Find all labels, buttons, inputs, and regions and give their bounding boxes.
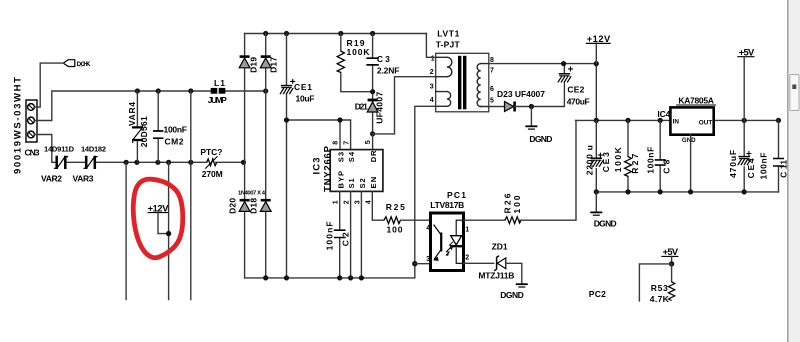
svg-text:VAR4: VAR4 bbox=[127, 102, 137, 126]
capacitor CE2 470uF bbox=[558, 64, 590, 107]
svg-text:+12V: +12V bbox=[148, 203, 170, 213]
diode D23 UF4007 bbox=[489, 89, 545, 112]
svg-text:4.7K: 4.7K bbox=[650, 294, 670, 304]
svg-text:100: 100 bbox=[387, 225, 403, 235]
svg-text:2: 2 bbox=[344, 200, 351, 204]
svg-text:PTC?: PTC? bbox=[200, 147, 222, 157]
capacitor CE3 2200u bbox=[585, 120, 611, 191]
capacitor CM2 100nF bbox=[153, 91, 187, 162]
svg-text:VAR2: VAR2 bbox=[41, 173, 62, 183]
svg-text:DGND: DGND bbox=[500, 290, 524, 300]
secondary ground rail bbox=[596, 191, 778, 193]
svg-text:1: 1 bbox=[465, 226, 469, 233]
svg-text:100nF: 100nF bbox=[645, 147, 655, 174]
svg-text:PC1: PC1 bbox=[447, 190, 466, 200]
svg-text:L1: L1 bbox=[214, 78, 225, 88]
svg-text:4: 4 bbox=[365, 200, 372, 204]
svg-text:R26: R26 bbox=[503, 193, 513, 213]
svg-text:7: 7 bbox=[490, 67, 494, 74]
wire transformer pin4 to primary return bbox=[415, 106, 436, 263]
svg-text:2200 u: 2200 u bbox=[585, 145, 595, 175]
ground DGND at D23 bbox=[525, 107, 552, 144]
svg-text:KA7805A: KA7805A bbox=[678, 95, 714, 105]
wire to PC1 pin3 bbox=[415, 263, 430, 265]
capacitor C11 100nF bbox=[758, 120, 788, 191]
svg-text:100nF: 100nF bbox=[758, 153, 768, 180]
thermistor PTC 270M bbox=[200, 147, 222, 179]
wire IC3 pin2 bbox=[350, 191, 352, 278]
svg-text:1: 1 bbox=[431, 55, 435, 62]
resistor R25 100 bbox=[384, 202, 430, 234]
svg-text:D23 UF4007: D23 UF4007 bbox=[497, 89, 545, 99]
capacitor CE4 470uF bbox=[728, 120, 756, 191]
capacitor CE1 10uF electrolytic bbox=[280, 34, 315, 278]
svg-text:R27: R27 bbox=[630, 153, 640, 173]
svg-text:4: 4 bbox=[426, 225, 430, 232]
svg-text:3: 3 bbox=[426, 256, 430, 263]
connector CN3 bbox=[25, 100, 40, 158]
secondary +12V wire from pin8 bbox=[489, 64, 597, 121]
wire PC1 pin2 to ZD1 bbox=[464, 262, 494, 264]
regulator IC4 KA7805A bbox=[657, 95, 716, 144]
IC U1: IC3 TNY266P box bbox=[312, 145, 383, 192]
svg-text:S2: S2 bbox=[358, 178, 367, 188]
svg-text:270M: 270M bbox=[202, 169, 223, 179]
svg-text:DGND: DGND bbox=[594, 218, 617, 228]
red annotation circle bbox=[133, 179, 183, 258]
svg-text:D17: D17 bbox=[269, 57, 279, 73]
svg-text:OUT: OUT bbox=[699, 120, 713, 127]
svg-text:S4: S4 bbox=[347, 151, 356, 162]
svg-text:LVT1: LVT1 bbox=[437, 29, 459, 39]
svg-text:R53: R53 bbox=[651, 283, 668, 293]
svg-text:10uF: 10uF bbox=[296, 94, 315, 104]
power label +12V bbox=[586, 34, 611, 64]
svg-text:5: 5 bbox=[365, 140, 372, 144]
capacitor C2 100nF on BYP pin bbox=[325, 191, 351, 278]
capacitor C3 2.2NF bbox=[366, 34, 399, 92]
resistor R27 100K bbox=[613, 120, 640, 191]
wire EN pin to R25 bbox=[372, 191, 384, 220]
diode D19 bbox=[239, 57, 258, 73]
svg-text:100K: 100K bbox=[347, 47, 371, 57]
svg-text:8: 8 bbox=[332, 141, 339, 145]
wire IC3 pin3 bbox=[360, 191, 362, 278]
svg-text:2: 2 bbox=[465, 255, 469, 262]
svg-text:D21: D21 bbox=[355, 101, 368, 111]
svg-text:D_CHK: D_CHK bbox=[77, 61, 91, 68]
power label +5V bottom bbox=[661, 247, 679, 264]
svg-text:470uF: 470uF bbox=[567, 97, 590, 107]
svg-text:UF4007: UF4007 bbox=[375, 92, 385, 124]
DC+ top rail y33.5 bbox=[245, 33, 427, 35]
svg-text:100: 100 bbox=[512, 195, 522, 213]
svg-text:CE1: CE1 bbox=[294, 82, 312, 92]
resistor R26 100 bbox=[503, 193, 523, 223]
wire top rail to transformer pin1 bbox=[426, 34, 435, 58]
svg-text:C 11: C 11 bbox=[779, 160, 789, 178]
svg-text:LTV817B: LTV817B bbox=[430, 200, 464, 210]
svg-text:GND: GND bbox=[682, 137, 696, 144]
source rail y120 to IC3 pins 8,7 bbox=[287, 120, 351, 150]
zener ZD1 MTZJ11B bbox=[478, 241, 514, 280]
diode D21 UF4007 bbox=[355, 92, 385, 134]
svg-text:5: 5 bbox=[490, 98, 494, 105]
wire CN3 pin3 to lower AC rail bbox=[34, 135, 56, 163]
svg-text:470uF: 470uF bbox=[728, 150, 738, 178]
+12V mid rail bbox=[576, 119, 779, 121]
svg-text:+5V: +5V bbox=[739, 48, 755, 58]
svg-text:CE2: CE2 bbox=[567, 85, 584, 95]
diode D17 bbox=[260, 57, 278, 73]
resistor R19 100K bbox=[337, 34, 372, 92]
primary ground bottom rail bbox=[245, 264, 415, 278]
wire bridge left leg x244.6 bbox=[244, 34, 246, 278]
wire lower AC rail segments bbox=[66, 161, 244, 163]
svg-text:IC3: IC3 bbox=[312, 158, 323, 175]
svg-text:6: 6 bbox=[490, 86, 494, 93]
wire CN3 pin2 to top AC rail bbox=[34, 91, 211, 121]
varistor VAR4 bbox=[127, 91, 149, 162]
svg-text:90019WS-03WHT: 90019WS-03WHT bbox=[13, 77, 24, 174]
svg-text:1: 1 bbox=[333, 200, 340, 204]
svg-text:MTZJ11B: MTZJ11B bbox=[478, 270, 514, 280]
svg-text:BYP: BYP bbox=[336, 171, 345, 189]
svg-text:14D911D: 14D911D bbox=[44, 145, 75, 154]
svg-text:7: 7 bbox=[343, 141, 350, 145]
window scrollbar strip bbox=[788, 0, 800, 342]
node +5V / R53 bbox=[669, 261, 674, 266]
transformer LVT1 T-PJT bbox=[436, 29, 489, 112]
wire R26 to +12V rail bbox=[519, 120, 576, 220]
varistor VAR3 bbox=[73, 145, 107, 184]
svg-text:100K: 100K bbox=[613, 146, 623, 172]
capacitor C8 100nF bbox=[645, 120, 671, 191]
svg-text:2.2NF: 2.2NF bbox=[377, 66, 400, 76]
ground DGND secondary rail bbox=[590, 192, 616, 228]
svg-text:100nF: 100nF bbox=[164, 125, 188, 135]
svg-text:R25: R25 bbox=[386, 202, 405, 212]
svg-text:3: 3 bbox=[354, 200, 361, 204]
wire CN3 pin1 to D_CHK bbox=[34, 63, 63, 107]
diode D18 bbox=[249, 198, 271, 214]
long vertical wires to bottom crop bbox=[126, 91, 191, 300]
svg-text:CM2: CM2 bbox=[165, 136, 184, 146]
svg-text:3: 3 bbox=[430, 84, 434, 91]
wire IC4 GND pin bbox=[690, 135, 692, 192]
varistor VAR2 bbox=[41, 145, 75, 184]
inductor L1 JUMP bbox=[208, 78, 227, 105]
svg-text:CE4: CE4 bbox=[746, 158, 756, 178]
svg-text:IC4: IC4 bbox=[657, 109, 670, 119]
wire drain node to transformer pin2 bbox=[373, 77, 436, 134]
svg-text:S3: S3 bbox=[336, 152, 345, 162]
node dot D23 ground bbox=[529, 104, 534, 109]
svg-text:100nF: 100nF bbox=[325, 221, 335, 250]
wire PC2 stub bbox=[639, 264, 671, 301]
resistor R53 4.7K bbox=[650, 264, 675, 304]
svg-text:TNY266P: TNY266P bbox=[323, 145, 334, 192]
svg-text:CN3: CN3 bbox=[25, 148, 40, 158]
wire AC rail y91 right of L1 bbox=[225, 90, 265, 92]
svg-text:T-PJT: T-PJT bbox=[436, 39, 461, 49]
svg-text:DGND: DGND bbox=[529, 134, 552, 144]
svg-text:4: 4 bbox=[430, 97, 434, 104]
svg-text:D18: D18 bbox=[249, 198, 259, 214]
diode D20 bbox=[228, 198, 250, 214]
node +12V (circled) bbox=[148, 203, 172, 236]
svg-text:2: 2 bbox=[430, 69, 434, 76]
svg-text:JUMP: JUMP bbox=[208, 95, 227, 105]
optocoupler PC1 LTV817B bbox=[430, 190, 466, 270]
flag D_CHK bbox=[63, 60, 90, 68]
svg-text:EN: EN bbox=[369, 177, 378, 189]
svg-text:PC2: PC2 bbox=[589, 289, 606, 299]
wire ZD1 to ground bbox=[506, 263, 522, 283]
svg-text:20D561: 20D561 bbox=[139, 116, 149, 147]
svg-text:+12V: +12V bbox=[587, 34, 611, 44]
svg-text:DR: DR bbox=[369, 150, 378, 162]
svg-text:IN: IN bbox=[673, 118, 680, 125]
node junction pin3 PC1 bbox=[412, 261, 417, 266]
svg-text:14D182: 14D182 bbox=[81, 145, 106, 154]
svg-text:D20: D20 bbox=[228, 198, 238, 214]
node dots on rail y91 bbox=[135, 88, 269, 93]
svg-text:VAR3: VAR3 bbox=[73, 173, 94, 183]
svg-text:8: 8 bbox=[490, 57, 494, 64]
ground DGND at ZD1 bbox=[500, 284, 528, 300]
node dots on rail y162 bbox=[124, 160, 247, 165]
svg-text:S1: S1 bbox=[347, 177, 356, 188]
svg-text:1N4007 X 4: 1N4007 X 4 bbox=[238, 190, 266, 196]
svg-text:ZD1: ZD1 bbox=[492, 241, 508, 251]
wire bridge right leg x265.7 bbox=[265, 34, 267, 278]
svg-text:D19: D19 bbox=[249, 57, 259, 73]
svg-text:+5V: +5V bbox=[663, 247, 679, 257]
power label +5V top bbox=[737, 48, 755, 121]
svg-text:CE3: CE3 bbox=[601, 152, 611, 172]
wire D23 to CE2 bbox=[515, 82, 565, 106]
wire PC1 pin1 to R26 bbox=[464, 219, 505, 221]
wire DR pin bbox=[372, 134, 374, 150]
